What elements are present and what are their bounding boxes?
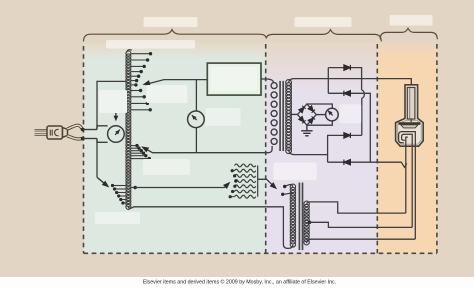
HV transformer core (280, 81, 283, 151)
svg-text:Elsevier items and derived ite: Elsevier items and derived items © 2009 … (143, 279, 336, 286)
kVp meter drop wire (195, 80, 197, 153)
mA selector rheostat bank (235, 164, 258, 198)
brace x-ray tube (380, 28, 437, 39)
rectifier wire D (bottom, to tube cathode common) (328, 162, 407, 167)
HV transformer secondary winding (286, 80, 292, 154)
ground symbol (301, 125, 312, 136)
plug face slots (50, 129, 58, 136)
x-ray tube envelope (396, 85, 424, 146)
autotransformer taps kVp cluster (131, 146, 149, 159)
HV secondary center tap to bridge (290, 113, 298, 115)
junction node line upper (81, 128, 85, 132)
wire rheostat to filament transformer selector (258, 179, 275, 187)
prereading kVp meter M2 (188, 111, 205, 128)
plug body (47, 126, 68, 139)
label box above brace 1 (144, 17, 198, 27)
line compensation adjust arrow above meter (115, 111, 117, 118)
wire filament tap to mA selector arrow (135, 184, 228, 188)
HV primary top lead (267, 79, 274, 83)
dashed border left (83, 46, 85, 253)
rheostat tap dots (230, 171, 236, 197)
bridge diode bottom-left (299, 116, 306, 123)
autotransformer T1 winding (126, 51, 131, 209)
rectifier diode D4 (344, 160, 351, 165)
tube cathode pin 1 (405, 146, 407, 213)
label box bottom left of console (95, 212, 140, 224)
kVp minor selector wire and arrow (149, 80, 208, 84)
filament secondary top tap wire (307, 202, 406, 213)
anode stem (407, 88, 415, 120)
plug prongs (35, 130, 49, 134)
filament secondary bottom tap wire (307, 239, 416, 243)
crossover jog (362, 90, 365, 136)
mA meter M3 (326, 108, 339, 121)
HV secondary bottom lead (289, 149, 328, 154)
wire bridge top to mA meter (307, 104, 332, 109)
rectifier wire B with corner (328, 93, 370, 162)
brace operating console (84, 30, 267, 42)
filament primary tap leads and nodes (283, 184, 293, 194)
cathode filament structure with leads (399, 132, 416, 147)
dashed border right (436, 44, 438, 253)
meter M1 needle (115, 130, 120, 135)
timer box label blank (211, 67, 257, 91)
wire bridge bottom to mA meter (307, 121, 332, 126)
label box above mA selector (143, 159, 190, 175)
label box right of autotransformer taps (147, 85, 188, 103)
HV transformer primary winding (271, 83, 277, 145)
wire line lower to meter bracket (83, 138, 97, 140)
wire line upper to meter bracket (83, 129, 97, 131)
dashed divider high-voltage/tube (376, 44, 378, 253)
meter M3 needle (328, 111, 333, 116)
anode target plate (410, 119, 412, 122)
filament transformer core (299, 183, 302, 251)
autotransformer top hook (127, 50, 132, 53)
label box above filament transformer (274, 163, 317, 181)
meter M2 needle (192, 115, 197, 120)
rectifier diode D3 (344, 133, 351, 138)
wire bridge right to mA meter (316, 114, 325, 116)
label box left of autotransformer (99, 90, 127, 113)
rectifier wire C (328, 135, 362, 162)
high-voltage section panel (lavender) (266, 42, 378, 253)
rectifier left vertical upper (327, 68, 329, 94)
line cord wires (67, 125, 82, 139)
wire timer box to HV primary (261, 78, 267, 80)
kVp major selector arrow and wire to HV primary (143, 146, 272, 153)
operating console panel (green) (84, 42, 266, 253)
line voltage meter M1 (108, 126, 125, 143)
rectifier diode D2 (344, 91, 351, 96)
dashed border bottom (84, 252, 437, 254)
label box top of console panel (106, 40, 195, 49)
bridge diode top-left (299, 106, 306, 113)
bridge diode top-right (308, 106, 315, 113)
tube cathode pin 3 (414, 146, 416, 239)
tube cathode pin 2 (411, 146, 413, 227)
tube inner glass wall (398, 120, 422, 144)
dashed divider console/high-voltage (265, 44, 267, 253)
rectifier wire A (top) (328, 68, 361, 90)
x-ray tube section panel (orange) (377, 42, 437, 253)
bridge diode bottom-right (308, 116, 315, 123)
HV secondary top lead / anode wire (289, 79, 412, 85)
label box above brace 2 (295, 17, 352, 27)
filament secondary center tap wire (308, 221, 312, 225)
autotransformer taps upper-right fan (131, 54, 151, 110)
filament transformer primary winding (290, 184, 295, 247)
mAs bridge rectifier diamond (298, 104, 317, 125)
junction node line lower (81, 137, 85, 141)
line meter bracket (97, 126, 108, 143)
timer circuit box (207, 63, 261, 95)
rectifier diode D1 (344, 65, 351, 70)
wire console left vertical (97, 81, 126, 177)
brace high-voltage section (266, 30, 381, 42)
line compensator selector arrow (left) (97, 177, 107, 185)
filament transformer secondary winding (304, 201, 309, 245)
autotransformer bottom hook and filament return wire (128, 207, 293, 249)
label box in rectifier bank (340, 105, 362, 124)
label box above brace 3 (390, 15, 433, 26)
filament circuit tap node (131, 187, 136, 189)
autotransformer taps left cluster (113, 186, 126, 204)
label box right of kVp meter (206, 108, 241, 126)
